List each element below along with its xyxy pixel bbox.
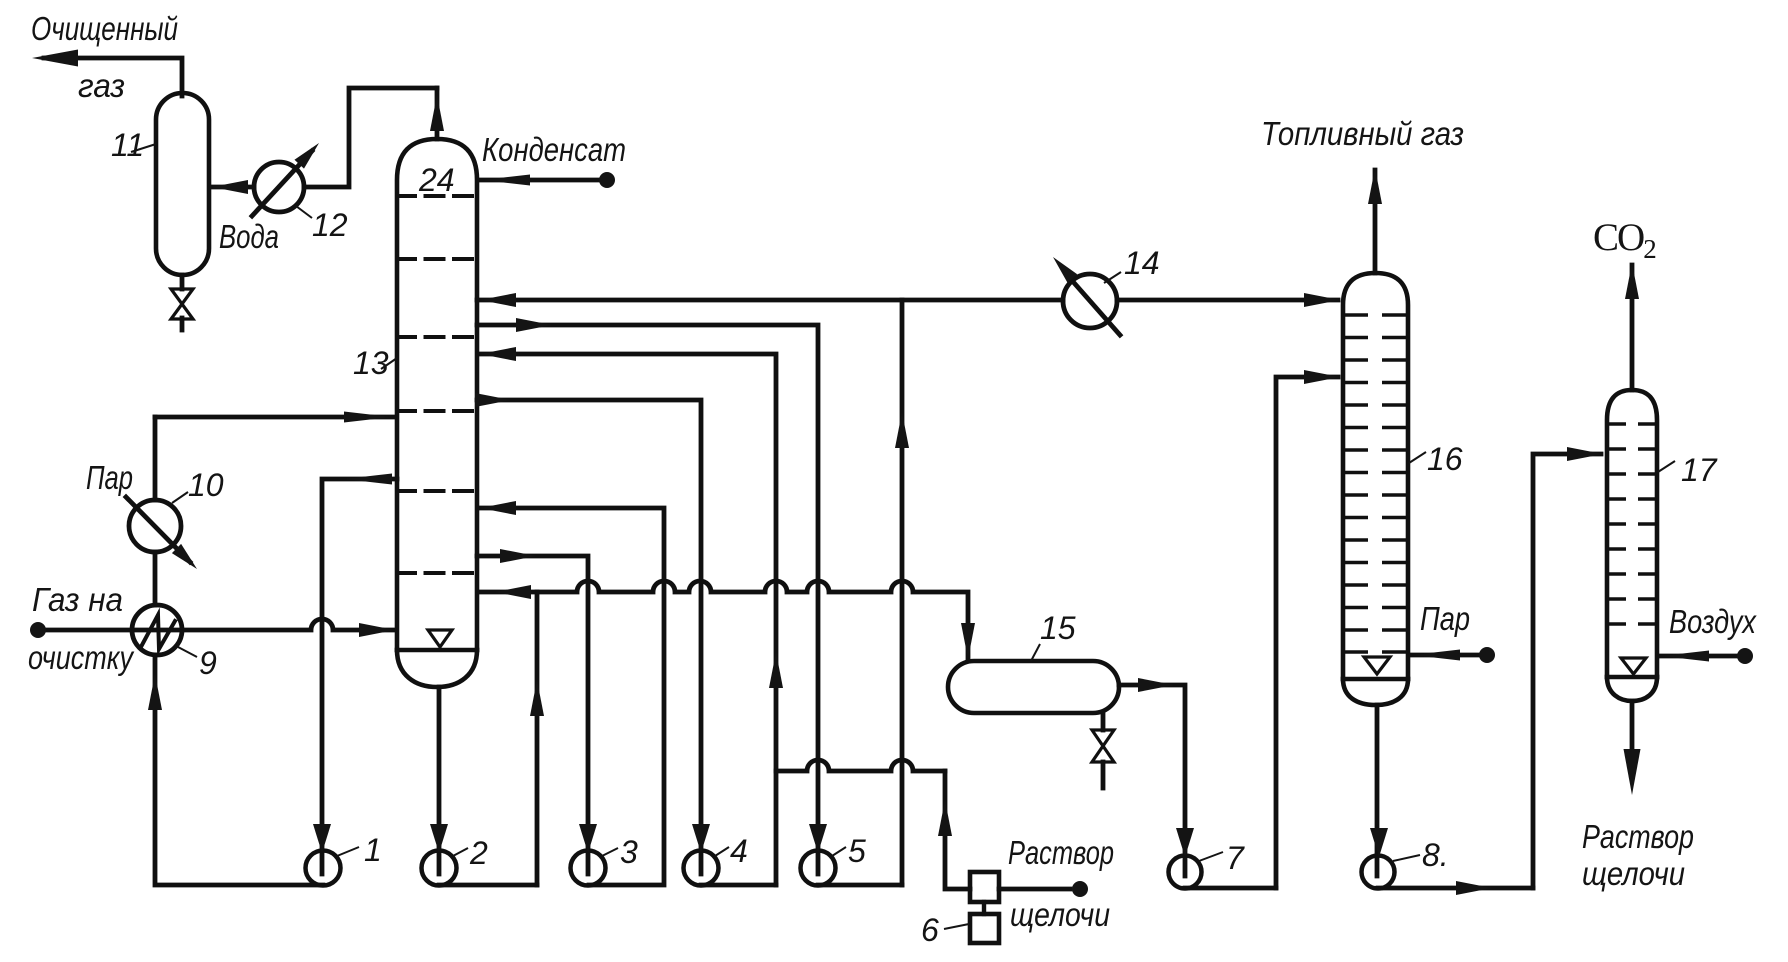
svg-text:24: 24 (418, 162, 455, 198)
svg-text:8.: 8. (1422, 837, 1449, 873)
svg-text:Очищенный: Очищенный (31, 10, 178, 47)
svg-text:Воздух: Воздух (1669, 603, 1757, 640)
svg-text:Конденсат: Конденсат (482, 131, 626, 168)
svg-text:щелочи: щелочи (1582, 855, 1685, 892)
svg-text:Пар: Пар (86, 459, 133, 496)
svg-text:Раствор: Раствор (1008, 834, 1114, 871)
svg-text:7: 7 (1226, 840, 1245, 876)
svg-text:14: 14 (1124, 245, 1160, 281)
svg-text:1: 1 (364, 832, 382, 868)
svg-text:Вода: Вода (219, 218, 279, 255)
svg-text:15: 15 (1040, 610, 1076, 646)
svg-text:11: 11 (111, 127, 144, 163)
svg-text:17: 17 (1681, 452, 1718, 488)
svg-text:Пар: Пар (1420, 600, 1470, 637)
svg-text:очистку: очистку (28, 639, 135, 676)
svg-text:12: 12 (312, 207, 348, 243)
svg-text:щелочи: щелочи (1010, 896, 1110, 933)
svg-text:4: 4 (730, 833, 748, 869)
svg-text:CO2: CO2 (1593, 216, 1656, 264)
svg-text:9: 9 (199, 645, 217, 681)
svg-text:16: 16 (1427, 441, 1463, 477)
svg-text:2: 2 (469, 835, 488, 871)
svg-text:Газ на: Газ на (32, 581, 123, 618)
svg-text:5: 5 (848, 833, 866, 869)
svg-text:3: 3 (620, 834, 638, 870)
svg-text:газ: газ (78, 67, 125, 104)
svg-text:13: 13 (353, 345, 389, 381)
svg-text:10: 10 (188, 467, 224, 503)
svg-text:6: 6 (921, 912, 939, 948)
svg-text:Топливный газ: Топливный газ (1261, 115, 1464, 152)
svg-text:Раствор: Раствор (1582, 818, 1694, 855)
